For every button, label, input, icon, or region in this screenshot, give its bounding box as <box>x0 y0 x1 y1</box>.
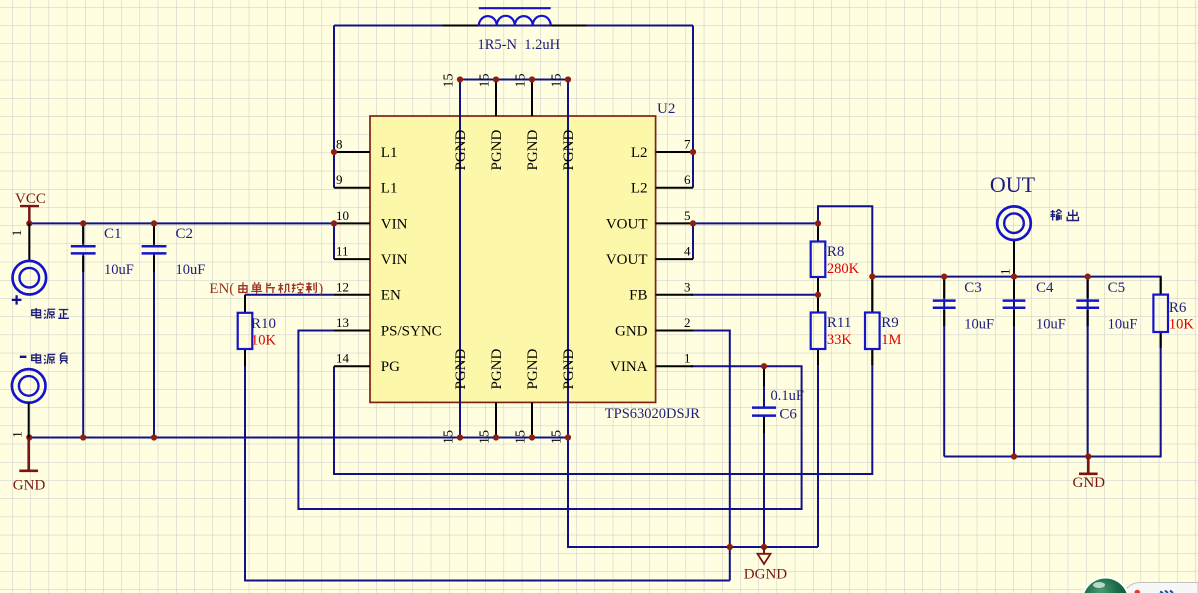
svg-text:L2: L2 <box>631 181 648 197</box>
svg-text:15: 15 <box>550 74 565 88</box>
svg-text:10: 10 <box>336 208 349 223</box>
junction at (154,223.4) <box>151 220 157 226</box>
ground symbol DGND <box>744 547 787 583</box>
junction at (1087.7,276.6) <box>1085 274 1091 280</box>
svg-text:10uF: 10uF <box>176 262 206 278</box>
capacitor C5 <box>1076 280 1137 333</box>
svg-text:C3: C3 <box>964 280 982 296</box>
capacitor C6 0.1uF <box>752 388 804 422</box>
junction at (872.3,276.6) <box>869 274 875 280</box>
svg-text:PGND: PGND <box>489 348 505 389</box>
wire: R11 bottom vertical <box>817 349 819 547</box>
svg-text:5: 5 <box>684 208 691 223</box>
svg-text:FB: FB <box>629 288 647 304</box>
junction at (944.2,276.6) <box>941 274 947 280</box>
svg-text:PGND: PGND <box>525 348 541 389</box>
wire: EN / R10 net <box>245 295 730 581</box>
svg-text:15: 15 <box>514 430 529 444</box>
junction at (29.3,223.4) <box>26 220 32 226</box>
wire: C1 C2 verticals <box>83 223 154 437</box>
inductor L1 pins (black) <box>443 25 587 27</box>
junction at (764,366.2) <box>761 363 767 369</box>
junction at (729.8,547) <box>727 544 733 550</box>
svg-text:14: 14 <box>336 351 350 366</box>
connector P+ 电源正 <box>12 223 69 318</box>
svg-text:R9: R9 <box>881 315 899 331</box>
junction at (29.3,437.5) <box>26 434 32 440</box>
svg-text:15: 15 <box>550 430 565 444</box>
wire: VCC bus to VIN <box>29 223 334 259</box>
wire: VINA / PS-SYNC net <box>298 331 801 510</box>
IC pin stubs <box>334 80 693 438</box>
svg-text:GND: GND <box>1073 475 1106 491</box>
junction at (818,294.8) <box>815 292 821 298</box>
junction at (334,223.4) <box>331 220 337 226</box>
svg-text:TPS63020DSJR: TPS63020DSJR <box>605 406 700 422</box>
capacitor C1 <box>71 226 134 278</box>
watermark logo bottom right <box>1081 577 1198 593</box>
svg-text:OUT: OUT <box>990 172 1036 197</box>
resistor R9 <box>865 313 901 350</box>
svg-text:6: 6 <box>684 172 691 187</box>
connector P- 电源负 <box>9 353 67 438</box>
svg-text:1: 1 <box>998 269 1013 276</box>
svg-text:VCC: VCC <box>15 191 46 207</box>
junction at (334,152) <box>331 149 337 155</box>
junction at (154,437.5) <box>151 434 157 440</box>
svg-text:4: 4 <box>684 244 691 259</box>
ground symbol GND right <box>1073 457 1106 492</box>
svg-text:C4: C4 <box>1036 280 1054 296</box>
svg-text:1: 1 <box>9 230 24 237</box>
svg-text:11: 11 <box>336 244 349 259</box>
IC pin numbers <box>336 74 691 445</box>
junction at (764,547) <box>761 544 767 550</box>
svg-text:13: 13 <box>336 315 349 330</box>
IC U2 body TPS63020DSJR <box>370 116 656 402</box>
junction at (1014,456.5) <box>1011 453 1017 459</box>
junction at (532,437.5) <box>529 434 535 440</box>
junction at (460,79.5) <box>457 76 463 82</box>
svg-text:10K: 10K <box>251 333 277 349</box>
junction at (496,437.5) <box>493 434 499 440</box>
svg-text:1M: 1M <box>881 332 901 348</box>
svg-text:VIN: VIN <box>381 216 408 232</box>
svg-text:C6: C6 <box>779 406 797 422</box>
svg-text:VOUT: VOUT <box>606 252 648 268</box>
junction at (568,437.5) <box>565 434 571 440</box>
svg-text:PGND: PGND <box>561 348 577 389</box>
resistor pin stubs (black) <box>83 223 1161 433</box>
ground symbol GND left <box>13 438 46 494</box>
svg-text:1R5-N 1.2uH: 1R5-N 1.2uH <box>478 37 561 53</box>
power flag VCC <box>9 191 46 236</box>
inductor 1R5-N 1.2uH <box>478 8 561 53</box>
junction at (568,79.5) <box>565 76 571 82</box>
svg-text:33K: 33K <box>827 332 853 348</box>
wire: GND pin2 down <box>691 331 730 581</box>
capacitor C2 <box>142 226 206 278</box>
svg-text:VIN: VIN <box>381 252 408 268</box>
svg-text:L1: L1 <box>381 181 398 197</box>
svg-text:PGND: PGND <box>453 129 469 170</box>
capacitor C4 <box>1003 280 1066 333</box>
wire: VOUT net <box>693 206 1161 456</box>
junction at (818,223.4) <box>815 220 821 226</box>
svg-text:VINA: VINA <box>610 359 648 375</box>
svg-text:R10: R10 <box>251 316 276 332</box>
svg-text:EN(: EN( <box>209 281 234 297</box>
svg-text:7: 7 <box>684 137 691 152</box>
svg-text:15: 15 <box>478 74 493 88</box>
svg-text:15: 15 <box>514 74 529 88</box>
wire: main GND bus <box>29 437 568 439</box>
wire: C6 vertical <box>763 366 765 547</box>
svg-text:0.1uF: 0.1uF <box>771 388 804 404</box>
svg-text:C2: C2 <box>176 226 194 242</box>
svg-text:PG: PG <box>381 359 400 375</box>
wire: inductor net top horizontal <box>334 26 693 188</box>
svg-text:DGND: DGND <box>744 567 787 583</box>
connector OUT 输出 <box>990 172 1079 275</box>
svg-text:PGND: PGND <box>489 129 505 170</box>
junction at (460,437.5) <box>457 434 463 440</box>
wire: PGND verticals through IC <box>460 80 818 548</box>
svg-text:VOUT: VOUT <box>606 216 648 232</box>
svg-text:8: 8 <box>336 137 343 152</box>
svg-text:10K: 10K <box>1169 317 1195 333</box>
svg-text:15: 15 <box>442 74 457 88</box>
svg-text:L1: L1 <box>381 145 398 161</box>
wire: PG to R9 bottom <box>334 349 872 474</box>
svg-text:C1: C1 <box>104 226 122 242</box>
junction at (532,79.5) <box>529 76 535 82</box>
junction at (496,79.5) <box>493 76 499 82</box>
net label EN <box>209 281 323 297</box>
svg-text:15: 15 <box>442 430 457 444</box>
IC pin names <box>381 129 648 389</box>
svg-text:2: 2 <box>684 315 691 330</box>
svg-text:EN: EN <box>381 288 401 304</box>
junction at (1088.3,456.5) <box>1085 453 1091 459</box>
svg-text:12: 12 <box>336 279 349 294</box>
svg-text:1: 1 <box>684 351 691 366</box>
svg-text:R6: R6 <box>1169 300 1187 316</box>
svg-text:10uF: 10uF <box>1108 317 1138 333</box>
svg-text:9: 9 <box>336 172 343 187</box>
svg-text:10uF: 10uF <box>964 317 994 333</box>
resistor R8 <box>811 242 860 278</box>
resistor R11 <box>811 313 853 350</box>
svg-text:PS/SYNC: PS/SYNC <box>381 323 442 339</box>
svg-text:10uF: 10uF <box>1036 317 1066 333</box>
svg-text:PGND: PGND <box>561 129 577 170</box>
svg-text:C5: C5 <box>1108 280 1126 296</box>
svg-text:GND: GND <box>13 477 46 493</box>
svg-text:R8: R8 <box>827 244 845 260</box>
junction at (693,152) <box>690 149 696 155</box>
junction at (693,223.4) <box>690 220 696 226</box>
svg-text:15: 15 <box>478 430 493 444</box>
svg-text:): ) <box>318 281 323 297</box>
svg-text:10uF: 10uF <box>104 262 134 278</box>
svg-text:3: 3 <box>684 279 691 294</box>
capacitor C3 <box>933 280 994 333</box>
svg-text:PGND: PGND <box>525 129 541 170</box>
svg-text:U2: U2 <box>657 101 675 117</box>
svg-text:L2: L2 <box>631 145 648 161</box>
svg-text:GND: GND <box>615 323 648 339</box>
junction at (83.2,223.4) <box>80 220 86 226</box>
wire: FB net <box>691 294 818 296</box>
svg-text:1: 1 <box>9 431 24 438</box>
svg-text:PGND: PGND <box>453 348 469 389</box>
svg-text:R11: R11 <box>827 315 851 331</box>
junction at (1014,276.6) <box>1011 274 1017 280</box>
resistor R10 <box>238 295 277 366</box>
junction at (83.2,437.5) <box>80 434 86 440</box>
resistor R6 <box>1153 295 1194 333</box>
svg-text:280K: 280K <box>827 261 860 277</box>
